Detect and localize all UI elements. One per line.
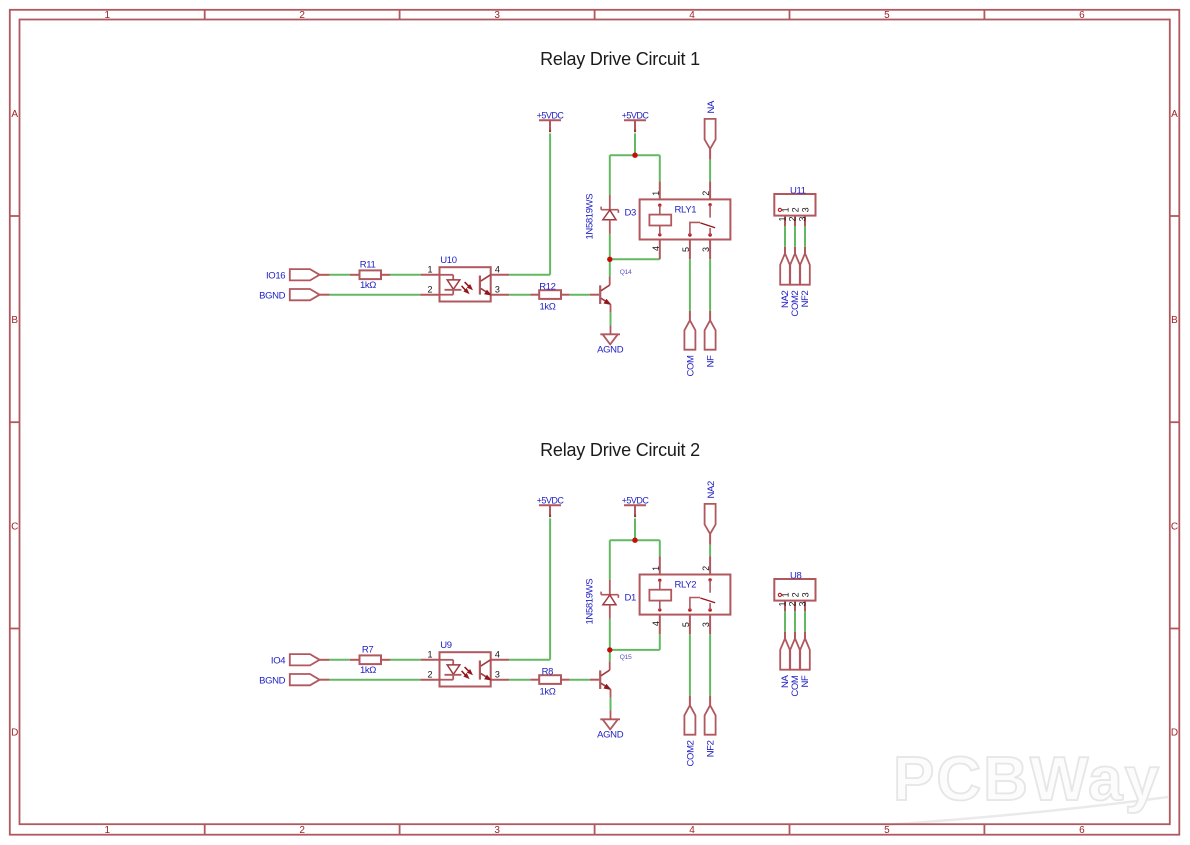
svg-text:1kΩ: 1kΩ xyxy=(360,665,376,676)
svg-text:RLY2: RLY2 xyxy=(675,580,697,591)
svg-text:NF: NF xyxy=(800,675,811,688)
svg-text:R11: R11 xyxy=(360,259,376,270)
svg-text:U10: U10 xyxy=(440,255,456,266)
svg-text:D3: D3 xyxy=(625,208,637,219)
svg-text:1: 1 xyxy=(777,216,787,221)
svg-text:+5VDC: +5VDC xyxy=(537,495,565,505)
svg-text:3: 3 xyxy=(494,825,500,836)
svg-text:1kΩ: 1kΩ xyxy=(360,280,376,291)
svg-text:COM: COM xyxy=(685,355,696,377)
svg-text:4: 4 xyxy=(689,10,695,21)
svg-text:2: 2 xyxy=(787,216,797,221)
svg-text:IO4: IO4 xyxy=(271,655,285,666)
svg-text:4: 4 xyxy=(651,621,661,626)
svg-text:4: 4 xyxy=(495,265,500,275)
svg-text:C: C xyxy=(1171,521,1178,532)
svg-text:3: 3 xyxy=(797,601,807,606)
svg-text:+5VDC: +5VDC xyxy=(622,495,650,505)
svg-text:2: 2 xyxy=(427,669,432,679)
svg-text:2: 2 xyxy=(701,191,711,196)
svg-text:U11: U11 xyxy=(790,185,806,196)
svg-text:4: 4 xyxy=(651,246,661,251)
svg-text:IO16: IO16 xyxy=(266,270,285,281)
svg-text:3: 3 xyxy=(494,10,500,21)
svg-text:Relay Drive Circuit 2: Relay Drive Circuit 2 xyxy=(540,440,700,460)
svg-text:3: 3 xyxy=(701,247,711,252)
svg-text:6: 6 xyxy=(1079,10,1085,21)
svg-text:1: 1 xyxy=(651,566,661,571)
svg-text:U8: U8 xyxy=(790,570,802,581)
svg-text:5: 5 xyxy=(884,10,890,21)
svg-text:3: 3 xyxy=(797,216,807,221)
svg-text:NF2: NF2 xyxy=(800,290,811,307)
svg-text:Q15: Q15 xyxy=(620,654,632,661)
svg-text:BGND: BGND xyxy=(259,675,286,686)
svg-text:C: C xyxy=(11,521,18,532)
svg-text:+5VDC: +5VDC xyxy=(537,110,565,120)
svg-text:1N5819WS: 1N5819WS xyxy=(584,579,595,625)
svg-text:R7: R7 xyxy=(362,644,374,655)
svg-text:D: D xyxy=(1171,728,1178,739)
svg-text:1: 1 xyxy=(105,825,111,836)
svg-text:AGND: AGND xyxy=(597,730,624,741)
svg-text:AGND: AGND xyxy=(597,345,624,356)
svg-text:1kΩ: 1kΩ xyxy=(539,302,555,313)
svg-text:PCBWay: PCBWay xyxy=(893,745,1161,814)
svg-text:2: 2 xyxy=(299,825,305,836)
svg-text:1: 1 xyxy=(427,265,432,275)
svg-text:R8: R8 xyxy=(542,666,554,677)
svg-text:3: 3 xyxy=(495,669,500,679)
svg-text:5: 5 xyxy=(681,622,691,627)
svg-text:U9: U9 xyxy=(440,640,452,651)
svg-text:1kΩ: 1kΩ xyxy=(539,687,555,698)
svg-text:1N5819WS: 1N5819WS xyxy=(584,194,595,240)
svg-text:2: 2 xyxy=(791,207,801,212)
svg-text:2: 2 xyxy=(791,592,801,597)
svg-text:5: 5 xyxy=(884,825,890,836)
svg-text:1: 1 xyxy=(427,650,432,660)
svg-text:2: 2 xyxy=(299,10,305,21)
svg-text:D1: D1 xyxy=(625,593,637,604)
svg-text:2: 2 xyxy=(701,566,711,571)
svg-text:5: 5 xyxy=(681,247,691,252)
svg-text:2: 2 xyxy=(787,601,797,606)
svg-text:+5VDC: +5VDC xyxy=(622,110,650,120)
svg-text:COM2: COM2 xyxy=(685,740,696,766)
svg-text:1: 1 xyxy=(781,207,791,212)
svg-text:A: A xyxy=(11,109,18,120)
svg-text:B: B xyxy=(11,315,18,326)
svg-text:A: A xyxy=(1171,109,1178,120)
svg-text:NF2: NF2 xyxy=(705,740,716,757)
svg-text:3: 3 xyxy=(701,622,711,627)
svg-text:4: 4 xyxy=(689,825,695,836)
svg-text:NA: NA xyxy=(706,100,717,114)
svg-text:NF: NF xyxy=(705,355,716,368)
svg-text:NA2: NA2 xyxy=(706,481,717,498)
svg-text:3: 3 xyxy=(801,592,811,597)
svg-text:Q14: Q14 xyxy=(620,269,632,276)
svg-text:RLY1: RLY1 xyxy=(675,205,697,216)
svg-text:1: 1 xyxy=(105,10,111,21)
svg-text:4: 4 xyxy=(495,650,500,660)
svg-text:6: 6 xyxy=(1079,825,1085,836)
svg-text:3: 3 xyxy=(801,207,811,212)
svg-text:D: D xyxy=(11,728,18,739)
svg-text:2: 2 xyxy=(427,284,432,294)
svg-text:B: B xyxy=(1171,315,1178,326)
svg-text:R12: R12 xyxy=(539,281,555,292)
svg-text:1: 1 xyxy=(777,601,787,606)
svg-text:1: 1 xyxy=(781,592,791,597)
svg-text:BGND: BGND xyxy=(259,290,286,301)
svg-text:1: 1 xyxy=(651,191,661,196)
svg-text:Relay Drive Circuit 1: Relay Drive Circuit 1 xyxy=(540,49,700,69)
svg-text:3: 3 xyxy=(495,284,500,294)
